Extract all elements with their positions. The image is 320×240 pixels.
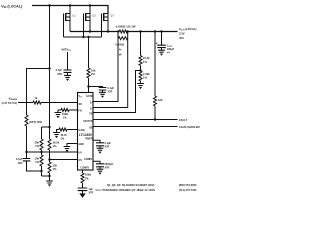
svg-text:COMP2: COMP2 [81, 167, 90, 170]
junction sense bus Q2 source [89, 30, 91, 32]
svg-text:180µF: 180µF [167, 47, 175, 51]
wire S- kelvin to sense resistor right [93, 32, 128, 108]
ground below feedback divider [140, 81, 142, 84]
resistor R8 13k 1% [48, 162, 51, 173]
resistor RS2 0.003 ohm (parallel loop) [118, 37, 127, 40]
ground below R11 [55, 113, 62, 115]
ground below dividers [46, 181, 53, 183]
junction OV tap [48, 158, 50, 160]
svg-text:X7R: X7R [89, 191, 94, 194]
svg-text:13k: 13k [53, 164, 58, 168]
resistor R11 10k 1% on FB2 pin [69, 109, 78, 111]
svg-text:2.49k: 2.49k [143, 72, 150, 76]
svg-text:40A: 40A [179, 36, 184, 40]
svg-text:0.1µF: 0.1µF [16, 158, 23, 161]
svg-text:6800pF: 6800pF [105, 163, 114, 166]
wire Q3 source to sense bus [107, 21, 109, 32]
svg-text:X7R: X7R [57, 73, 62, 76]
svg-text:1µF: 1µF [89, 188, 94, 191]
svg-text:X7R: X7R [105, 145, 110, 148]
svg-text:0.003Ω 1% 1W: 0.003Ω 1% 1W [116, 24, 136, 28]
ground below C5 [99, 167, 101, 169]
transistor Q3 (N-ch MOSFET) [102, 13, 115, 21]
capacitor C1 0.1uF [23, 159, 31, 161]
junction VIN rail / 100k branch [48, 67, 50, 69]
wire top input bus [32, 6, 108, 14]
wire source sense bus [70, 31, 119, 33]
svg-text:Q2: Q2 [92, 13, 96, 17]
svg-text:FB: FB [79, 110, 82, 113]
junction on top bus at VIN rail drop [48, 4, 50, 6]
resistor R1 21.5k 1% [140, 32, 142, 56]
junction gate bus / Q2 gate [82, 36, 84, 38]
junction top bus / Q1 drain [69, 4, 71, 6]
ground below C2 [67, 72, 69, 75]
wire gate bus [64, 36, 102, 38]
capacitor C2 4.7uF X7R [67, 52, 69, 70]
wire FAULT line to right edge [93, 119, 178, 121]
svg-text:COUT: PANASONIC CERAMIC QT: 18: COUT: PANASONIC CERAMIC QT: 180µF 4V ±20… [96, 188, 156, 192]
resistor R5 20k 1% [41, 127, 43, 139]
junction UV tap [40, 151, 42, 153]
wire share input [18, 102, 33, 104]
svg-text:TIMER: TIMER [85, 138, 93, 141]
svg-text:3.3V: 3.3V [179, 31, 185, 35]
junction cap bottom / divider column [40, 170, 42, 172]
svg-text:(0.4V TO 2.5V): (0.4V TO 2.5V) [2, 102, 18, 105]
wire Q2 drain [89, 6, 91, 14]
resistor R7 36.5k 1% [49, 127, 51, 139]
resistor R6 10k 1% [40, 155, 43, 166]
svg-text:(OPT) 100k: (OPT) 100k [29, 121, 43, 124]
svg-text:SD: SD [79, 103, 83, 106]
resistor R9 1k [33, 101, 41, 104]
svg-text:10%: 10% [17, 162, 23, 165]
wire divider bottoms join [42, 175, 50, 177]
junction output / fault pullup [154, 30, 156, 32]
svg-text:GAIN: GAIN [79, 129, 85, 132]
svg-text:X7R: X7R [108, 91, 113, 94]
svg-text:STATUS: STATUS [83, 120, 93, 123]
wire Q2 gate riser [83, 17, 85, 37]
svg-text:10k: 10k [91, 68, 96, 72]
svg-text:1%: 1% [143, 75, 147, 79]
wire Q1 drain [69, 6, 71, 14]
svg-text:UV: UV [79, 152, 83, 155]
ground below C4 [99, 146, 101, 148]
wire Q2 source to sense bus [89, 21, 91, 32]
node FB tap [140, 66, 142, 72]
svg-text:0.003Ω: 0.003Ω [116, 42, 125, 46]
resistor R4 (OPT) 100k [25, 115, 28, 126]
wire Q3 gate riser [101, 17, 103, 37]
svg-text:OV: OV [79, 159, 83, 162]
svg-text:S-BUS (SHARE BUS): S-BUS (SHARE BUS) [179, 126, 200, 129]
wire Q1 gate riser [63, 17, 65, 37]
svg-text:Q1: Q1 [72, 13, 76, 17]
junction sense resistor left [117, 30, 119, 32]
junction output / feedback divider [139, 30, 141, 32]
svg-text:1%: 1% [35, 160, 39, 164]
wire output line to VOUT [128, 31, 178, 33]
resistor RS1 0.003 ohm (on bus) [119, 30, 127, 33]
wire UV tap to IC [27, 151, 78, 153]
wire FB to divider tap [93, 71, 141, 113]
wire share to IC [41, 102, 78, 104]
junction top bus / Q2 drain [89, 4, 91, 6]
svg-text:4.7µF: 4.7µF [56, 69, 63, 72]
svg-text:1%: 1% [53, 144, 57, 148]
svg-text:X7R: X7R [105, 166, 110, 169]
svg-text:20k: 20k [35, 141, 40, 145]
svg-text:10k: 10k [158, 98, 163, 102]
junction gate bus / IC feed resistor [87, 36, 89, 38]
svg-text:GND: GND [79, 143, 85, 146]
capacitor C5 6800pF X7R on COMP1 [93, 161, 100, 164]
svg-text:Q3: Q3 [110, 13, 114, 17]
svg-text:2%: 2% [91, 72, 95, 76]
wire S+ kelvin to sense resistor left [93, 32, 118, 102]
resistor R10 10k 2% gate feed [88, 37, 90, 68]
svg-text:1%: 1% [35, 144, 39, 148]
svg-text:COMP1: COMP1 [84, 158, 93, 161]
svg-text:36.5k: 36.5k [53, 141, 60, 145]
wire GND pin to ground [67, 144, 78, 147]
junction fault line / pullup [154, 118, 156, 120]
ground below C3 [102, 90, 104, 92]
svg-text:10kΩ: 10kΩ [62, 113, 68, 116]
svg-text:10kΩ: 10kΩ [85, 174, 91, 177]
junction output / COUT [160, 30, 162, 32]
wire share bus line to right edge [93, 126, 178, 128]
resistor R13 10k 2% on COMP2 [82, 170, 84, 173]
capacitor C3 0.1uF X7R [89, 87, 103, 88]
resistor R2 2.49k 1% [139, 71, 142, 81]
junction divider ground [48, 175, 50, 177]
capacitor C6 1uF X7R on COMP2 [82, 183, 84, 188]
wire branch to OPT 100k [27, 69, 50, 116]
junction VIN rail / divider split [48, 126, 50, 128]
capacitor COUT 180uF x4 [161, 32, 163, 46]
junction VCC decoupling branch [87, 85, 89, 87]
junction 100k / UV line [25, 151, 27, 153]
svg-text:10k: 10k [35, 157, 40, 161]
transistor Q1 (N-ch MOSFET) [64, 13, 77, 21]
IC U1 LTC4350 load share controller [78, 93, 94, 171]
svg-text:1%: 1% [143, 60, 147, 64]
svg-text:LTC4350: LTC4350 [79, 133, 92, 137]
wire VIN rail down [49, 6, 51, 128]
ground on GND pin [64, 147, 71, 149]
resistor R3 10k fault pull-up [154, 32, 156, 97]
wire Q1 source to sense bus [69, 21, 71, 32]
ground below C6 (arrow style) [82, 191, 84, 194]
junction sense bus Q3 source [107, 30, 109, 32]
ground below COUT [161, 48, 163, 51]
wire OV tap to IC [50, 159, 78, 161]
svg-text:(714) 373-7334: (714) 373-7334 [179, 188, 197, 192]
ground below R12 [53, 133, 60, 135]
wire divider branch split [42, 126, 50, 128]
svg-text:(800) 554-5565: (800) 554-5565 [179, 183, 197, 187]
svg-text:35.7k: 35.7k [61, 134, 68, 137]
svg-text:Q1, Q2, Q3: SILICONIX Si4430DY: Q1, Q2, Q3: SILICONIX Si4430DY (30V) [107, 183, 155, 187]
junction sense resistor right [127, 30, 129, 32]
resistor R12 35.7k 1% on GAIN pin [67, 129, 78, 131]
svg-text:1%: 1% [53, 167, 57, 171]
capacitor C4 0.1uF X7R on TIMER [93, 140, 100, 143]
transistor Q2 (N-ch MOSFET) [84, 13, 97, 21]
svg-text:0.1µF: 0.1µF [108, 87, 115, 90]
svg-text:FAULT: FAULT [179, 118, 188, 122]
svg-text:0.1µF: 0.1µF [105, 142, 112, 145]
svg-text:SB: SB [89, 126, 93, 129]
svg-text:FB: FB [89, 113, 92, 116]
svg-text:21.5k: 21.5k [143, 56, 150, 60]
wire cap bottom to divider ground [27, 161, 42, 171]
svg-text:GATE: GATE [86, 95, 93, 98]
